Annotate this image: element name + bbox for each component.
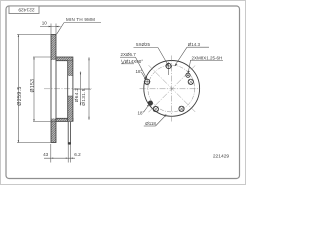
bolt circle dash-dot xyxy=(148,65,195,112)
label MIN TH 9MM xyxy=(57,17,101,34)
M8a xyxy=(186,73,190,77)
M8b dark xyxy=(148,101,152,105)
W4 lower left xyxy=(153,107,158,112)
page background xyxy=(0,0,246,186)
centerline horizontal xyxy=(44,88,92,90)
label D14.3 xyxy=(175,42,209,66)
svg-text:⋁Ø14X90°: ⋁Ø14X90° xyxy=(120,59,143,64)
dim D131.5 xyxy=(81,57,90,120)
svg-text:10: 10 xyxy=(42,20,48,25)
label D118 xyxy=(144,114,167,126)
dim D259.5 (left) xyxy=(17,35,51,143)
svg-text:5XØ25: 5XØ25 xyxy=(136,42,151,47)
W5 left xyxy=(145,79,150,84)
svg-text:2XM8X1.25-6H: 2XM8X1.25-6H xyxy=(192,55,223,60)
dim D153 xyxy=(30,57,55,121)
W3 lower right xyxy=(179,106,184,111)
svg-text:Ø14.3: Ø14.3 xyxy=(188,42,201,47)
W2 right upper xyxy=(188,79,193,84)
holes xyxy=(144,62,194,111)
svg-text:MIN TH 9MM: MIN TH 9MM xyxy=(66,17,95,22)
svg-text:221429: 221429 xyxy=(18,6,35,12)
svg-text:Ø259.5: Ø259.5 xyxy=(17,86,23,105)
svg-text:18°: 18° xyxy=(138,110,145,115)
label 2XD6.7 countersink xyxy=(120,52,147,79)
drawing frame xyxy=(6,6,240,179)
svg-text:6.2: 6.2 xyxy=(74,152,81,157)
dims 43 and 6.2 (bottom) xyxy=(43,144,81,163)
centerlines xyxy=(140,88,199,90)
dim D64.2 xyxy=(74,72,92,106)
hat top plate xyxy=(56,57,73,61)
svg-text:Ø153: Ø153 xyxy=(30,79,36,93)
friction ring bar xyxy=(51,35,56,143)
angle labels 18deg xyxy=(136,69,150,115)
hub spigot lip xyxy=(68,121,70,144)
svg-text:2XØ6.7: 2XØ6.7 xyxy=(121,52,137,57)
svg-text:Ø118: Ø118 xyxy=(145,121,156,126)
title box top-left xyxy=(9,6,39,14)
outer circle xyxy=(144,61,200,117)
outer image edge xyxy=(1,1,246,185)
label 2XM8X1.25-6H xyxy=(188,55,224,73)
svg-text:221429: 221429 xyxy=(213,154,230,160)
label 5XD25 xyxy=(134,42,169,66)
hat bottom plate xyxy=(56,118,73,121)
svg-text:18°: 18° xyxy=(136,69,143,74)
svg-text:Ø131.5: Ø131.5 xyxy=(81,88,87,106)
W1 top xyxy=(166,63,171,68)
dim 10 (top) xyxy=(40,20,61,34)
svg-text:43: 43 xyxy=(43,152,49,157)
svg-text:Ø64.2: Ø64.2 xyxy=(74,88,80,103)
hub cylinder xyxy=(68,61,73,122)
